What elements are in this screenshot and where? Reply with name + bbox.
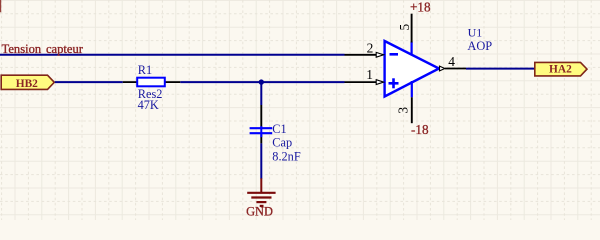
svg-text:R1: R1 <box>138 63 152 77</box>
svg-text:47K: 47K <box>138 98 159 112</box>
svg-text:5: 5 <box>397 24 412 31</box>
junction <box>259 79 264 84</box>
svg-text:8.2nF: 8.2nF <box>272 150 301 164</box>
wire: pin 4 to HA2 <box>466 68 535 70</box>
wire: R1 to op-amp pin 1 <box>180 81 344 83</box>
pin 4 output <box>440 66 467 71</box>
svg-text:U1: U1 <box>468 25 483 39</box>
pin 1 non-inverting input <box>345 80 384 85</box>
pin 5 positive supply <box>411 14 413 43</box>
svg-text:+18: +18 <box>410 0 431 15</box>
resistor R1 <box>123 78 181 87</box>
svg-text:HA2: HA2 <box>549 63 572 75</box>
capacitor C1 <box>250 105 273 143</box>
pin 2 inverting input <box>345 52 384 57</box>
wire: junction down to C1 <box>260 82 262 105</box>
port HA2 <box>535 62 587 76</box>
svg-text:Tension capteur: Tension capteur <box>2 42 84 56</box>
pin 3 negative supply <box>411 97 413 123</box>
svg-text:HB2: HB2 <box>16 78 38 90</box>
svg-text:1: 1 <box>366 67 373 82</box>
svg-text:GND: GND <box>246 205 273 219</box>
wire: HB2 to R1 <box>55 81 123 83</box>
svg-text:3: 3 <box>396 107 411 114</box>
port HB2 <box>1 75 54 90</box>
svg-text:-18: -18 <box>411 122 429 137</box>
svg-text:2: 2 <box>367 41 374 56</box>
svg-text:Cap: Cap <box>272 136 292 150</box>
svg-text:C1: C1 <box>272 122 286 136</box>
svg-text:4: 4 <box>448 54 455 69</box>
svg-text:AOP: AOP <box>467 39 492 53</box>
op-amp U1 <box>385 41 439 97</box>
wire: C1 to ground <box>260 143 262 178</box>
ground GND <box>247 178 275 206</box>
wire: net Tension capteur to op-amp pin 2 <box>0 54 345 56</box>
